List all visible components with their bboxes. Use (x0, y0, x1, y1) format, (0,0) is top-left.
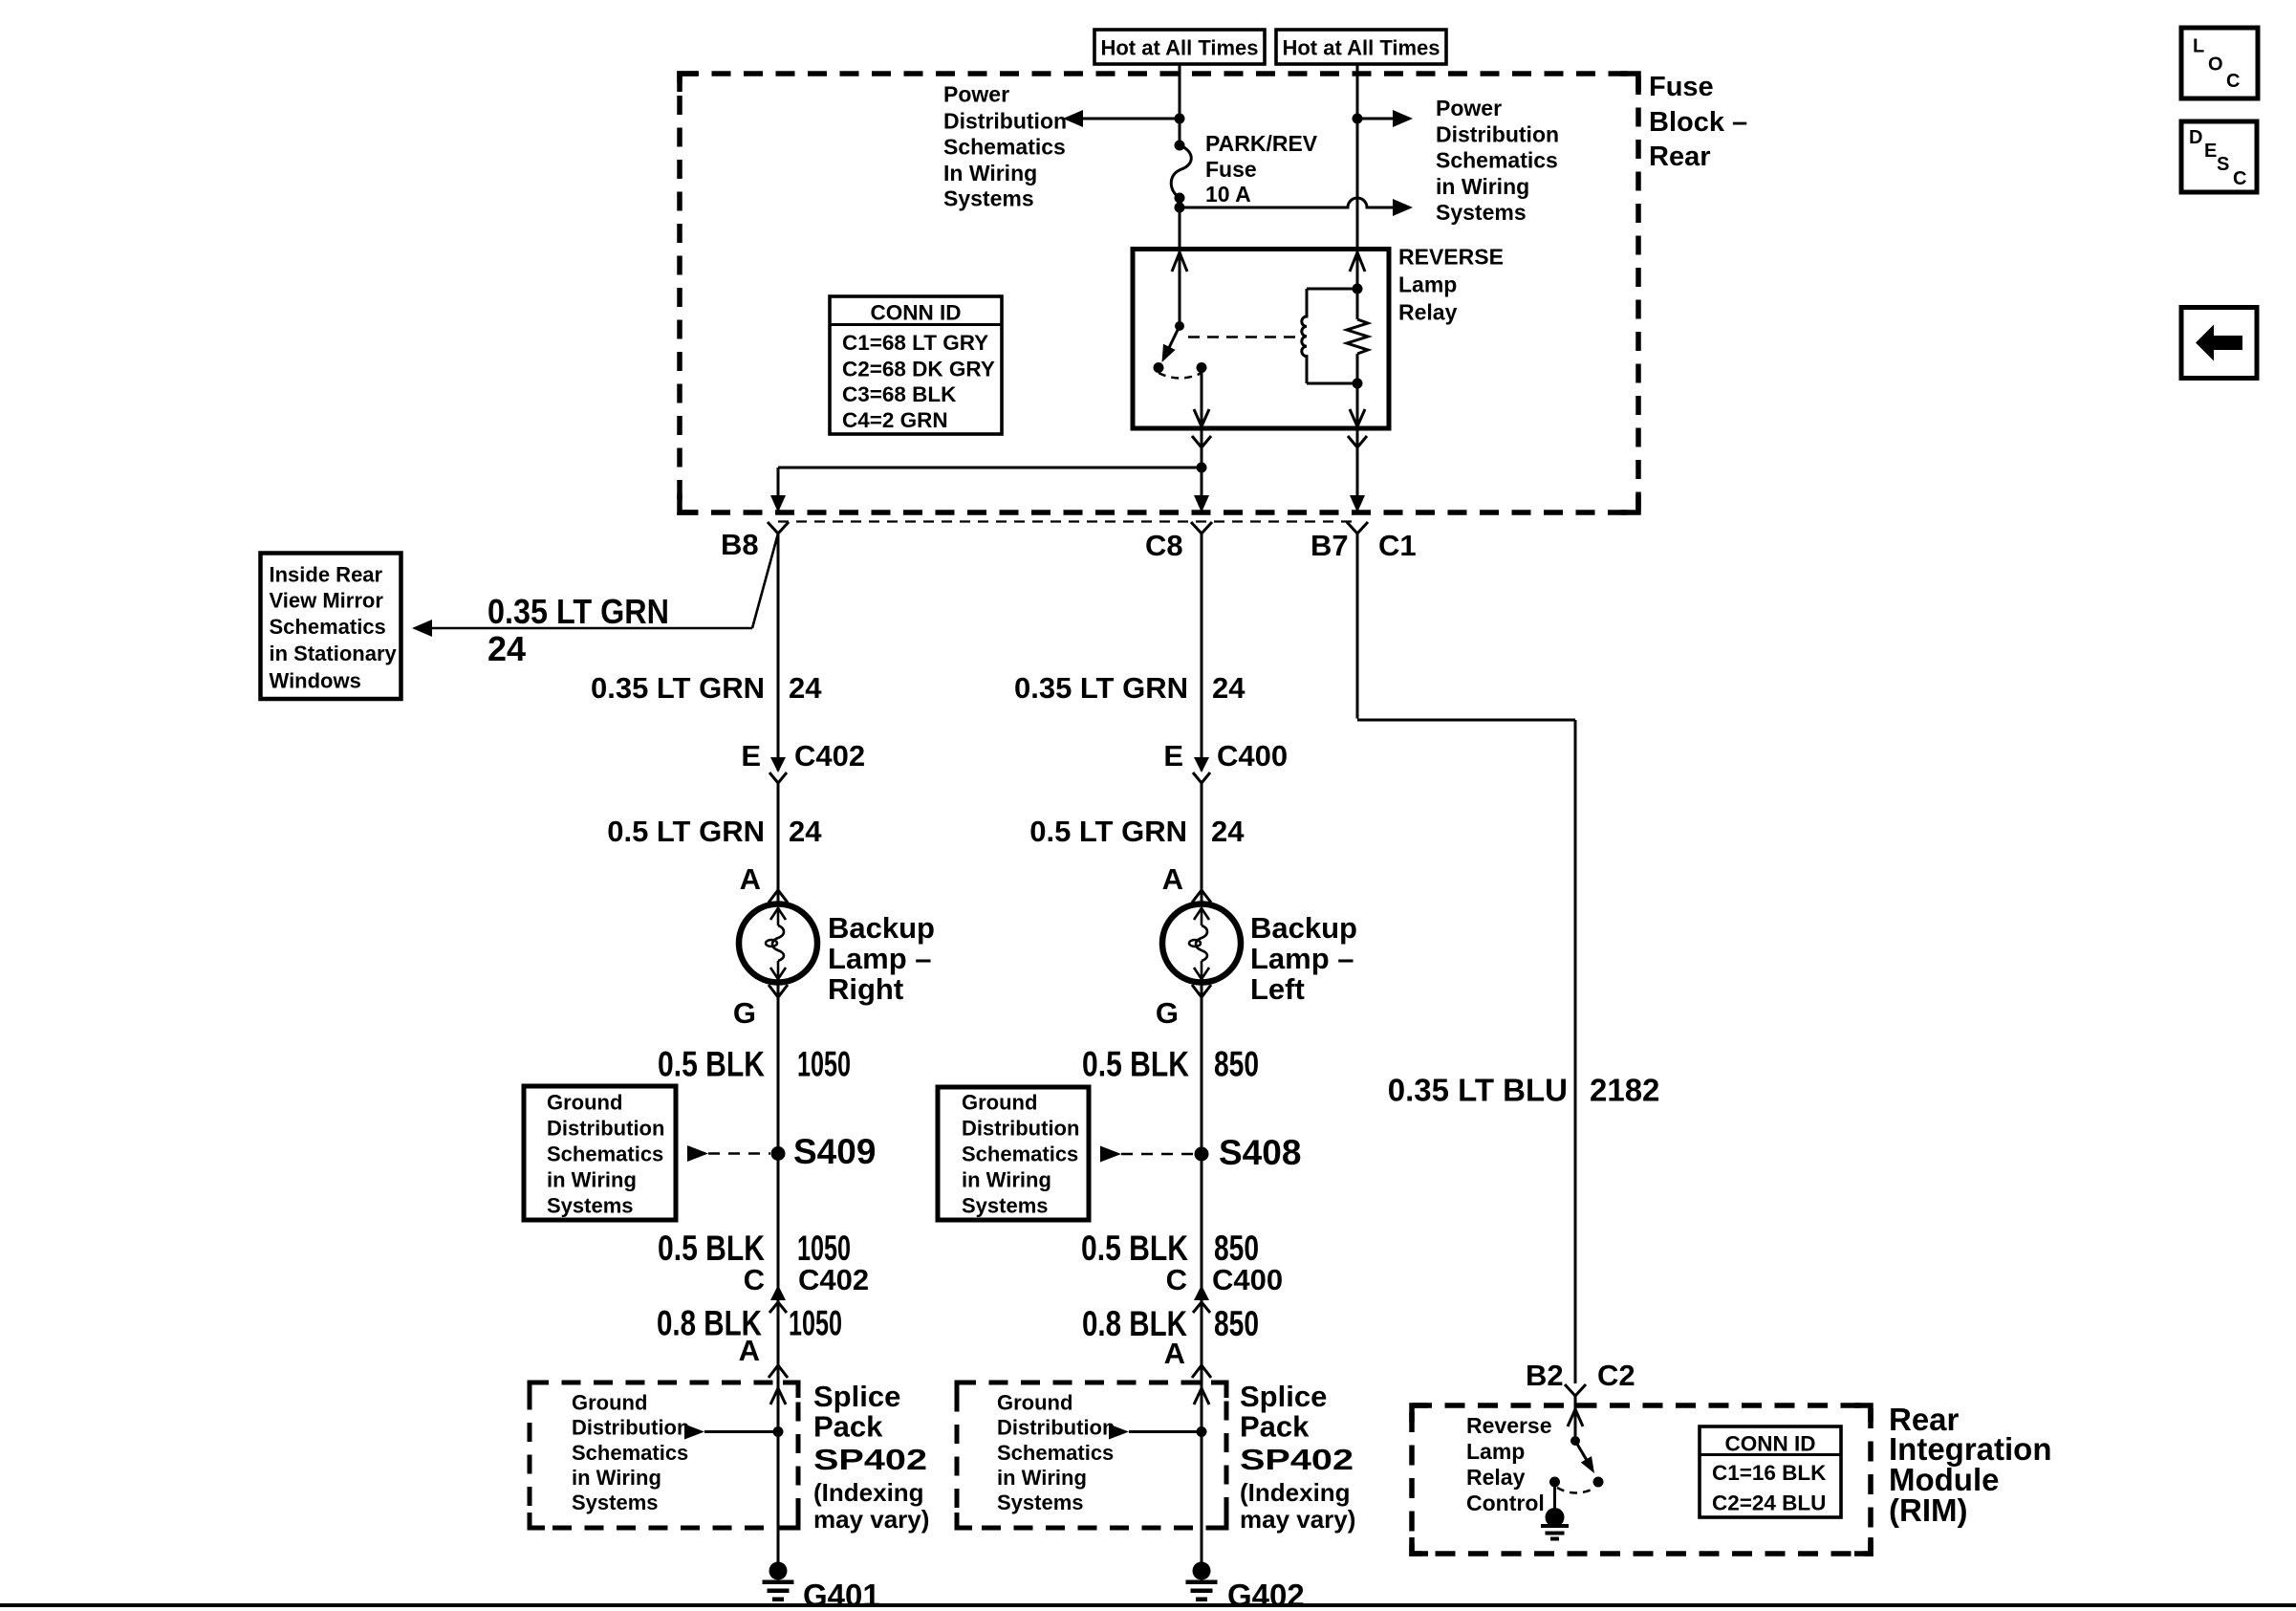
svg-text:24: 24 (789, 671, 822, 705)
svg-text:Distribution: Distribution (572, 1416, 689, 1440)
svg-text:Left: Left (1250, 972, 1305, 1006)
svg-text:S: S (2217, 154, 2229, 175)
svg-text:C: C (2233, 168, 2246, 189)
svg-text:G: G (733, 996, 756, 1030)
svg-text:Right: Right (828, 972, 903, 1006)
svg-text:0.35 LT GRN: 0.35 LT GRN (487, 592, 669, 631)
svg-text:Schematics: Schematics (997, 1441, 1114, 1465)
svg-text:Schematics: Schematics (270, 615, 386, 639)
svg-text:0.5 BLK: 0.5 BLK (1081, 1229, 1188, 1268)
svg-text:SP402: SP402 (1240, 1443, 1354, 1476)
svg-text:0.5 LT GRN: 0.5 LT GRN (607, 815, 765, 848)
svg-text:(Indexing: (Indexing (813, 1478, 924, 1507)
svg-text:Distribution: Distribution (997, 1416, 1115, 1440)
svg-text:A: A (1162, 862, 1183, 896)
svg-text:Windows: Windows (270, 669, 361, 693)
svg-text:in Wiring: in Wiring (962, 1168, 1051, 1192)
svg-text:Distribution: Distribution (547, 1117, 664, 1141)
svg-text:C1=68 LT GRY: C1=68 LT GRY (842, 331, 988, 355)
svg-text:Systems: Systems (943, 186, 1034, 211)
svg-text:C400: C400 (1217, 739, 1288, 773)
svg-text:Lamp: Lamp (1466, 1439, 1525, 1464)
svg-text:Splice: Splice (813, 1380, 900, 1413)
svg-text:Fuse: Fuse (1649, 72, 1714, 102)
svg-text:C1=16 BLK: C1=16 BLK (1712, 1461, 1827, 1485)
svg-text:G401: G401 (803, 1578, 880, 1611)
svg-text:CONN ID: CONN ID (1725, 1432, 1816, 1456)
svg-text:C4=2 GRN: C4=2 GRN (842, 408, 948, 432)
svg-text:may vary): may vary) (813, 1505, 929, 1534)
svg-text:Lamp –: Lamp – (1250, 942, 1354, 975)
svg-text:D: D (2189, 127, 2202, 148)
svg-text:C8: C8 (1145, 529, 1183, 562)
svg-text:REVERSE: REVERSE (1398, 245, 1504, 270)
svg-text:B2: B2 (1526, 1359, 1564, 1392)
svg-text:in Wiring: in Wiring (997, 1466, 1087, 1490)
svg-text:B8: B8 (721, 528, 759, 561)
svg-text:Schematics: Schematics (1436, 148, 1558, 173)
svg-text:Ground: Ground (962, 1091, 1037, 1115)
svg-text:Inside Rear: Inside Rear (270, 563, 383, 587)
svg-text:Hot at All Times: Hot at All Times (1282, 36, 1440, 60)
svg-text:0.5 BLK: 0.5 BLK (658, 1229, 765, 1268)
svg-text:in Wiring: in Wiring (572, 1466, 661, 1490)
svg-text:Systems: Systems (572, 1491, 659, 1514)
svg-text:24: 24 (1211, 815, 1245, 848)
svg-text:E: E (1163, 739, 1183, 773)
svg-text:C402: C402 (794, 739, 865, 773)
svg-text:Ground: Ground (547, 1091, 622, 1115)
svg-text:may vary): may vary) (1240, 1505, 1355, 1534)
svg-text:S409: S409 (793, 1132, 876, 1171)
svg-text:1050: 1050 (797, 1229, 851, 1268)
svg-text:A: A (739, 1334, 760, 1367)
svg-text:Systems: Systems (547, 1194, 634, 1218)
svg-text:Lamp –: Lamp – (828, 942, 932, 975)
svg-text:Control: Control (1466, 1491, 1545, 1515)
svg-text:E: E (741, 739, 761, 773)
svg-text:(Indexing: (Indexing (1240, 1478, 1351, 1507)
svg-text:1050: 1050 (797, 1045, 851, 1084)
svg-text:B7: B7 (1310, 529, 1349, 562)
svg-text:850: 850 (1214, 1304, 1259, 1343)
svg-text:0.5 BLK: 0.5 BLK (1082, 1045, 1189, 1084)
svg-text:E: E (2204, 141, 2217, 162)
svg-text:C2: C2 (1597, 1359, 1635, 1392)
svg-text:0.35 LT GRN: 0.35 LT GRN (591, 671, 765, 705)
svg-text:0.5 BLK: 0.5 BLK (658, 1045, 765, 1084)
svg-text:Reverse: Reverse (1466, 1413, 1552, 1438)
svg-text:Distribution: Distribution (1436, 122, 1559, 147)
svg-text:CONN ID: CONN ID (871, 301, 962, 325)
svg-text:C2=24 BLU: C2=24 BLU (1712, 1491, 1826, 1515)
svg-text:C2=68 DK GRY: C2=68 DK GRY (842, 358, 995, 381)
svg-text:Schematics: Schematics (572, 1441, 688, 1465)
svg-text:C400: C400 (1212, 1263, 1283, 1296)
svg-text:2182: 2182 (1590, 1073, 1659, 1108)
svg-text:Ground: Ground (997, 1391, 1072, 1415)
svg-text:24: 24 (1212, 671, 1245, 705)
svg-text:Pack: Pack (813, 1410, 883, 1444)
svg-text:PARK/REV: PARK/REV (1205, 131, 1318, 156)
svg-text:24: 24 (487, 629, 526, 668)
svg-text:Schematics: Schematics (962, 1143, 1078, 1166)
svg-text:SP402: SP402 (813, 1443, 927, 1476)
svg-text:G: G (1156, 996, 1179, 1030)
svg-text:Power: Power (943, 82, 1009, 107)
svg-text:Backup: Backup (1250, 911, 1357, 945)
svg-text:Relay: Relay (1466, 1465, 1526, 1490)
svg-text:Distribution: Distribution (962, 1117, 1079, 1141)
svg-text:Relay: Relay (1398, 300, 1458, 325)
svg-text:C402: C402 (798, 1263, 869, 1296)
svg-text:in Wiring: in Wiring (547, 1168, 637, 1192)
svg-text:C: C (1166, 1263, 1187, 1296)
svg-text:In Wiring: In Wiring (943, 161, 1037, 185)
svg-text:(RIM): (RIM) (1889, 1492, 1967, 1528)
svg-text:Splice: Splice (1240, 1380, 1327, 1413)
svg-text:Pack: Pack (1240, 1410, 1310, 1444)
svg-text:Power: Power (1436, 96, 1502, 120)
svg-text:1050: 1050 (789, 1304, 842, 1343)
svg-text:Hot at All Times: Hot at All Times (1100, 36, 1258, 60)
svg-text:Systems: Systems (1436, 200, 1527, 225)
svg-text:Systems: Systems (997, 1491, 1084, 1514)
svg-text:in Wiring: in Wiring (1436, 174, 1529, 199)
svg-text:0.35 LT BLU: 0.35 LT BLU (1388, 1073, 1568, 1108)
svg-text:G402: G402 (1227, 1578, 1305, 1611)
svg-text:S408: S408 (1219, 1133, 1301, 1172)
svg-text:0.5 LT GRN: 0.5 LT GRN (1029, 815, 1187, 848)
svg-text:10 A: 10 A (1205, 182, 1251, 207)
svg-text:C: C (2226, 71, 2240, 92)
svg-text:C3=68 BLK: C3=68 BLK (842, 382, 957, 406)
svg-text:C: C (744, 1263, 765, 1296)
svg-text:Ground: Ground (572, 1391, 647, 1415)
svg-text:Systems: Systems (962, 1194, 1049, 1218)
svg-text:O: O (2208, 54, 2223, 76)
svg-text:Block –: Block – (1649, 107, 1747, 138)
svg-text:850: 850 (1214, 1229, 1259, 1268)
svg-text:Backup: Backup (828, 911, 935, 945)
svg-text:Fuse: Fuse (1205, 157, 1257, 182)
svg-text:C1: C1 (1378, 529, 1417, 562)
svg-text:Distribution: Distribution (943, 109, 1067, 134)
svg-text:in Stationary: in Stationary (270, 642, 398, 665)
svg-text:A: A (1164, 1337, 1185, 1370)
svg-text:A: A (740, 862, 761, 896)
svg-text:L: L (2193, 36, 2204, 57)
svg-text:Schematics: Schematics (943, 135, 1066, 160)
svg-text:0.35 LT GRN: 0.35 LT GRN (1014, 671, 1188, 705)
svg-text:Schematics: Schematics (547, 1143, 663, 1166)
svg-text:Lamp: Lamp (1398, 272, 1457, 297)
svg-text:24: 24 (789, 815, 822, 848)
svg-text:View Mirror: View Mirror (270, 589, 384, 613)
svg-text:850: 850 (1214, 1045, 1259, 1084)
svg-text:Rear: Rear (1649, 142, 1711, 172)
